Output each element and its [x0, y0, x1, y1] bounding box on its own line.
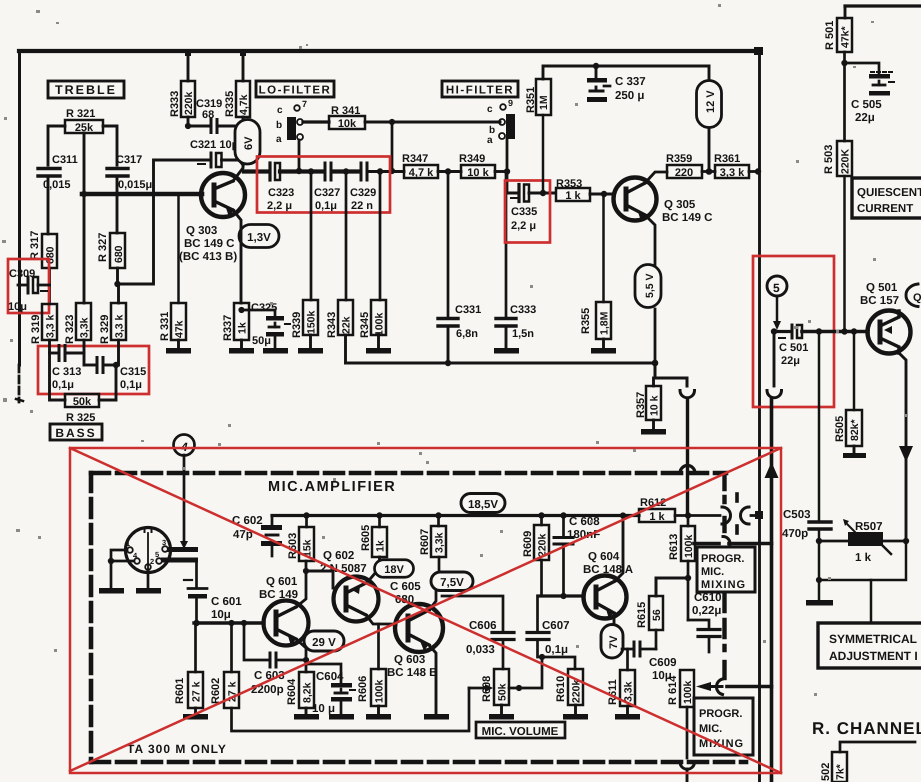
svg-text:R611: R611: [607, 679, 619, 705]
svg-text:220k: 220k: [183, 91, 195, 115]
wire switch b to R341: [303, 120, 329, 123]
red box node5 C501: [753, 256, 834, 407]
svg-text:MIC.AMPLIFIER: MIC.AMPLIFIER: [268, 479, 396, 495]
resistor R613: [668, 534, 680, 560]
red diagonal B: [70, 448, 781, 771]
red box C323 C327 C329: [257, 157, 390, 213]
resistor R614: [667, 675, 679, 705]
wire R331 top to base line: [177, 196, 180, 303]
wire Q604 collector to rail: [615, 516, 623, 582]
resistor R333: [169, 91, 181, 117]
ground R355: [602, 339, 605, 348]
svg-text:3,3k: 3,3k: [79, 317, 91, 338]
resistor R339: [291, 312, 303, 338]
svg-text:0,1μ: 0,1μ: [315, 200, 337, 212]
capacitor C327: [324, 163, 327, 180]
wire Q305 emitter to 5,5V: [645, 215, 655, 266]
transistor Q305: [614, 178, 657, 221]
svg-text:R 501: R 501: [824, 21, 836, 50]
svg-text:MIC.: MIC.: [699, 723, 722, 735]
ground DIN center: [136, 588, 161, 594]
wire Q603 emitter to ground: [429, 645, 436, 714]
svg-text:R607: R607: [419, 529, 431, 555]
svg-text:0,1μ: 0,1μ: [52, 379, 74, 391]
svg-text:22μ: 22μ: [781, 355, 800, 367]
wiper arrow into R614: [711, 685, 722, 688]
voltage oval 7,5V: [431, 572, 473, 591]
connector hook at R614: [716, 679, 722, 695]
svg-text:2: 2: [150, 557, 154, 566]
svg-text:1: 1: [126, 539, 130, 548]
svg-text:C331: C331: [455, 304, 481, 316]
wire R347 to R349: [438, 170, 461, 173]
svg-text:2,2 μ: 2,2 μ: [267, 200, 292, 212]
svg-text:0,1μ: 0,1μ: [545, 644, 568, 656]
wire Q604 emitter: [613, 613, 616, 648]
svg-text:5: 5: [155, 550, 159, 559]
wire R329 top: [117, 284, 120, 303]
wire C603 feedback: [244, 623, 268, 660]
capacitor C313: [48, 340, 51, 353]
svg-text:C 337: C 337: [615, 76, 646, 88]
svg-text:C607: C607: [542, 620, 570, 632]
wire Q601 collector to R603: [296, 561, 306, 607]
svg-text:R355: R355: [580, 308, 592, 334]
resistor R615: [636, 602, 648, 628]
svg-text:c: c: [277, 105, 283, 116]
svg-text:C 605: C 605: [390, 581, 421, 593]
svg-text:R 323: R 323: [64, 315, 76, 344]
svg-text:100k: 100k: [374, 312, 386, 336]
resistor R329: [99, 315, 111, 344]
svg-text:Q 602: Q 602: [323, 550, 354, 562]
wire stub R613 node to hook: [694, 542, 719, 546]
wire R327 bottom junction: [116, 268, 119, 284]
svg-text:R605: R605: [360, 525, 372, 551]
svg-text:3,3k: 3,3k: [434, 532, 446, 553]
capacitor C335: [507, 192, 517, 195]
svg-text:R606: R606: [357, 676, 369, 702]
wire R349 right to switch node: [495, 170, 507, 173]
svg-text:50μ: 50μ: [252, 335, 271, 347]
wire R355 top to base node: [602, 194, 605, 302]
resistor R502: [840, 742, 915, 752]
wire C501 to Q501 base: [802, 330, 868, 334]
svg-text:R 614: R 614: [667, 675, 679, 705]
svg-text:1k: 1k: [237, 322, 249, 334]
svg-text:50k: 50k: [497, 683, 509, 701]
svg-text:47k: 47k: [174, 320, 186, 338]
wire R612 to hooks: [675, 514, 720, 517]
capacitor C329: [360, 163, 363, 180]
svg-text:a: a: [487, 135, 493, 146]
svg-text:C609: C609: [649, 657, 677, 669]
svg-text:C503: C503: [783, 509, 811, 521]
svg-text:C311: C311: [52, 154, 78, 166]
svg-text:22 n: 22 n: [351, 200, 373, 212]
wire R341 to HI switch: [365, 121, 500, 124]
resistor R323: [64, 315, 76, 344]
svg-text:R615: R615: [636, 602, 648, 628]
svg-text:5,5 V: 5,5 V: [644, 273, 656, 298]
resistor R503: [823, 145, 835, 174]
svg-text:MIXING: MIXING: [701, 579, 746, 591]
svg-text:7V: 7V: [608, 635, 620, 649]
svg-text:82k*: 82k*: [849, 418, 861, 441]
big red box MIC AMPLIFIER: [70, 448, 781, 773]
svg-text:C309: C309: [9, 268, 35, 280]
wire node4 down to DIN: [183, 455, 186, 541]
supply rail 18,5V: [272, 514, 639, 517]
wire 7,5V up to R607: [438, 557, 441, 572]
resistor R605: [360, 525, 372, 551]
wire R333 top to frame: [187, 53, 190, 81]
connector hook on emitter output: [680, 391, 695, 398]
wire switch a down to chain: [298, 140, 301, 171]
wire R317 bottom to C309 node: [48, 268, 51, 304]
svg-text:1,8M: 1,8M: [599, 311, 611, 335]
svg-text:0,015: 0,015: [43, 179, 71, 191]
svg-text:R505: R505: [834, 416, 846, 442]
wire R335 top to frame: [242, 53, 245, 81]
svg-text:MIC. VOLUME: MIC. VOLUME: [482, 726, 559, 738]
voltage oval 6V: [235, 120, 260, 165]
wire Q305 collector to R359: [645, 172, 667, 183]
svg-text:R 331: R 331: [159, 312, 171, 341]
wire C327 to C329: [333, 169, 359, 173]
resistor R319: [30, 315, 42, 344]
wire mixing branch to hook R613: [729, 542, 772, 546]
svg-text:a: a: [276, 134, 282, 145]
svg-text:C327: C327: [314, 187, 340, 199]
svg-text:R 325: R 325: [66, 412, 95, 424]
svg-text:CURRENT: CURRENT: [857, 203, 913, 215]
svg-text:R 329: R 329: [99, 315, 111, 344]
red box C313 C315: [38, 346, 149, 394]
callout oval partial: [906, 284, 918, 307]
wire Q602 collector to Q603 base: [366, 615, 394, 624]
svg-text:MIC.: MIC.: [701, 566, 724, 578]
arrow down on emitter line: [899, 446, 913, 462]
wire Q501 emitter down: [899, 353, 906, 537]
resistor R608: [481, 676, 493, 702]
arrow up on mixing line: [765, 462, 779, 478]
wire DIN pin3 pin5 output bars: [167, 547, 198, 552]
wire R321 right to C317: [103, 126, 117, 165]
feedback wire R327 to C321: [116, 160, 154, 284]
svg-text:9: 9: [508, 98, 513, 108]
capacitor C503: [818, 332, 821, 522]
ground R357: [652, 420, 655, 429]
svg-text:C333: C333: [510, 304, 536, 316]
svg-text:R. CHANNEL: R. CHANNEL: [812, 719, 921, 738]
svg-text:C315: C315: [120, 366, 146, 378]
svg-text:BASS: BASS: [55, 426, 96, 440]
resistor R337: [222, 315, 234, 341]
voltage oval 7V: [601, 625, 623, 659]
label box PROGR MIC MIXING 1: [697, 547, 755, 592]
wire lower link: [819, 541, 906, 580]
svg-text:220K: 220K: [840, 148, 852, 174]
svg-text:220: 220: [675, 167, 693, 179]
capacitor C601: [184, 579, 192, 581]
svg-text:29 V: 29 V: [312, 637, 336, 649]
svg-text:22k: 22k: [341, 316, 353, 334]
red box C309: [8, 259, 49, 313]
DIN socket connector: [126, 528, 171, 573]
wire 6V node down to Q303 collector: [233, 126, 243, 181]
svg-text:R 503: R 503: [823, 145, 835, 174]
wire R359 to R361: [702, 170, 715, 173]
resistor R351: [525, 87, 537, 113]
svg-text:100k: 100k: [683, 534, 695, 558]
ground C333: [494, 348, 519, 354]
svg-text:Q 604: Q 604: [588, 551, 620, 563]
resistor R606: [357, 676, 369, 702]
resistor R343: [326, 312, 338, 338]
svg-text:1,3V: 1,3V: [247, 232, 271, 244]
wire hook to mixing line: [727, 685, 772, 689]
svg-text:22μ: 22μ: [855, 112, 875, 124]
wire R353 to Q305 base: [590, 193, 614, 196]
junction frame/divider: [754, 47, 763, 55]
svg-text:C610: C610: [694, 592, 722, 604]
frame left border: [18, 51, 21, 365]
resistor R610: [555, 676, 567, 702]
svg-text:R339: R339: [291, 312, 303, 338]
svg-text:1 k: 1 k: [565, 190, 581, 202]
voltage oval 5,5V: [635, 265, 661, 308]
svg-text:R345: R345: [359, 312, 371, 338]
capacitor C505: [845, 63, 880, 74]
wire R602 bottom long: [232, 688, 470, 731]
wire R335 bottom to 6V node: [242, 117, 245, 126]
wire Q601 emitter down: [296, 639, 306, 672]
wire R501 bottom: [843, 52, 846, 141]
svg-text:ADJUSTMENT I: ADJUSTMENT I: [829, 649, 918, 663]
svg-text:10μ: 10μ: [211, 609, 231, 621]
connector hooks pair: [722, 507, 731, 524]
resistor R327: [97, 233, 109, 262]
voltage oval 12V: [708, 66, 711, 82]
resistor R501: [824, 21, 836, 50]
wire R503 down to Q501 node: [843, 176, 846, 331]
svg-text:C329: C329: [350, 187, 376, 199]
wire DIN pin2 to ground: [147, 570, 150, 588]
svg-text:C 313: C 313: [52, 366, 81, 378]
Q604 base wire: [538, 594, 584, 597]
wire R351 bottom to node: [542, 115, 545, 193]
svg-text:BC 148 B: BC 148 B: [387, 667, 438, 679]
svg-text:2,2 μ: 2,2 μ: [511, 220, 536, 232]
transistor Q501: [868, 311, 911, 354]
capacitor C609: [622, 648, 632, 651]
svg-text:680: 680: [45, 246, 57, 264]
svg-text:10 k: 10 k: [649, 395, 661, 416]
svg-text:0,033: 0,033: [466, 644, 495, 656]
wire hop over dashed border: [680, 466, 695, 473]
node 5 circle: [767, 276, 787, 296]
svg-text:100k: 100k: [682, 680, 694, 704]
svg-text:R613: R613: [668, 534, 680, 560]
node 4 circle: [174, 435, 195, 456]
resistor R611: [607, 679, 619, 705]
ground DIN left: [99, 588, 124, 594]
red box C335: [505, 181, 550, 243]
resistor R331: [159, 312, 171, 341]
svg-text:BC 157: BC 157: [860, 295, 899, 307]
svg-text:0,22μ: 0,22μ: [692, 605, 721, 617]
transistor Q601: [264, 601, 309, 646]
resistor R335: [224, 91, 236, 117]
svg-text:SYMMETRICAL: SYMMETRICAL: [829, 632, 917, 646]
resistor R602: [210, 678, 222, 704]
resistor R355: [580, 308, 592, 334]
resistor R345: [359, 312, 371, 338]
wire C501 node down to hook: [773, 332, 776, 387]
wire node5 down: [776, 296, 779, 321]
wire switch HI down to C335: [506, 139, 509, 193]
svg-text:10μ: 10μ: [8, 301, 27, 313]
Q303 emitter wire to R337: [233, 210, 241, 303]
svg-text:c: c: [487, 104, 493, 115]
potentiometer R325: [50, 353, 66, 400]
wire R351 top rail: [543, 66, 709, 79]
svg-text:TREBLE: TREBLE: [55, 83, 117, 97]
svg-text:R609: R609: [522, 531, 534, 557]
capacitor C337: [593, 63, 599, 69]
svg-text:18,5V: 18,5V: [468, 499, 498, 511]
wire emitter node to R357 and hook: [655, 363, 687, 386]
svg-text:R610: R610: [555, 676, 567, 702]
svg-text:C321 10μ: C321 10μ: [190, 139, 238, 151]
svg-text:6V: 6V: [243, 136, 255, 150]
svg-text:R 317: R 317: [29, 231, 41, 260]
frame top border: [19, 49, 758, 53]
svg-text:R604: R604: [286, 678, 298, 705]
svg-text:BC 149: BC 149: [259, 589, 298, 601]
long wire R343 to emitter node: [346, 362, 656, 365]
label box HI-FILTER: [442, 81, 518, 97]
svg-text:BC 149 C: BC 149 C: [184, 238, 235, 250]
svg-text:5: 5: [773, 281, 780, 295]
svg-text:C317: C317: [116, 154, 142, 166]
svg-text:4,7 k: 4,7 k: [409, 167, 434, 179]
ground R331: [177, 340, 180, 348]
svg-text:Q 305: Q 305: [664, 199, 696, 211]
svg-text:C325: C325: [251, 302, 277, 314]
wire drop to chain at 392: [391, 122, 394, 171]
label box QUIESCENT CURRENT: [852, 178, 921, 218]
label box PROGR MIC MIXING 2: [694, 698, 753, 755]
svg-text:PROGR.: PROGR.: [701, 553, 744, 565]
resistor R505: [853, 332, 856, 411]
svg-text:1M: 1M: [538, 95, 550, 110]
svg-text:R349: R349: [459, 153, 485, 165]
svg-text:R333: R333: [169, 91, 181, 117]
connector hook at mixing branch: [723, 537, 730, 551]
svg-text:R343: R343: [326, 312, 338, 338]
wire C329 to R347: [369, 170, 404, 173]
capacitor C501: [774, 330, 791, 333]
voltage oval 29V: [304, 631, 344, 651]
svg-text:C323: C323: [268, 187, 294, 199]
svg-text:R507: R507: [855, 521, 883, 533]
svg-text:1 k: 1 k: [649, 511, 665, 523]
svg-text:12 V: 12 V: [705, 90, 717, 113]
svg-text:TA 300 M ONLY: TA 300 M ONLY: [127, 742, 227, 756]
svg-text:C 501: C 501: [779, 342, 808, 354]
svg-text:R335: R335: [224, 91, 236, 117]
resistor R357: [635, 392, 647, 418]
wire Q601 collector to Q602 base: [306, 571, 333, 588]
wire R361 to divider: [749, 170, 759, 173]
svg-text:R 321: R 321: [66, 108, 95, 120]
svg-text:502: 502: [820, 763, 832, 781]
svg-text:3: 3: [162, 538, 166, 547]
transistor Q303: [201, 173, 245, 217]
svg-text:HI-FILTER: HI-FILTER: [446, 85, 514, 97]
transistor Q603: [395, 604, 443, 652]
resistor R317: [29, 231, 41, 260]
svg-text:b: b: [276, 120, 282, 131]
svg-text:QUIESCENT: QUIESCENT: [857, 187, 921, 199]
capacitor C603: [269, 653, 272, 667]
capacitor C323: [268, 163, 271, 180]
svg-text:1k: 1k: [375, 540, 387, 552]
connector hook below C501: [767, 391, 782, 398]
svg-text:7: 7: [302, 99, 307, 109]
output chain wire Q303 to C323: [244, 169, 268, 173]
svg-text:3,3 k: 3,3 k: [114, 314, 126, 338]
svg-text:10 k: 10 k: [467, 167, 489, 179]
svg-text:1 k: 1 k: [855, 552, 872, 564]
svg-text:Q 501: Q 501: [866, 282, 898, 294]
svg-text:LO-FILTER: LO-FILTER: [259, 85, 332, 97]
svg-text:50k: 50k: [73, 396, 92, 408]
Q303 base wire: [82, 192, 202, 197]
svg-text:0,1μ: 0,1μ: [120, 379, 142, 391]
svg-text:220k: 220k: [571, 679, 583, 703]
ground R337: [240, 340, 243, 348]
wire to symmetrical box: [870, 580, 873, 623]
svg-text:250 μ: 250 μ: [615, 90, 644, 102]
Q601 base wire: [194, 621, 264, 624]
svg-text:150k: 150k: [306, 310, 318, 334]
wiper R608: [469, 687, 487, 690]
wire C331 drop: [447, 172, 450, 318]
label box LO-FILTER: [256, 81, 334, 97]
resistor R604: [286, 678, 298, 705]
wire R333 bottom: [187, 117, 190, 126]
svg-text:C 608: C 608: [569, 516, 600, 528]
svg-text:18V: 18V: [384, 564, 404, 576]
svg-text:10 μ: 10 μ: [312, 703, 335, 715]
wire hook down to mic box: [686, 400, 689, 516]
svg-text:3,3 k: 3,3 k: [720, 167, 745, 179]
wire C323 to C327: [280, 169, 323, 173]
transistor Q602: [334, 577, 379, 622]
svg-text:27 k: 27 k: [191, 681, 203, 702]
svg-text:0,015μ: 0,015μ: [118, 179, 152, 191]
svg-text:C606: C606: [469, 620, 497, 632]
resistor R609: [522, 531, 534, 557]
svg-text:Q 303: Q 303: [186, 225, 217, 237]
svg-text:3,3 k: 3,3 k: [45, 314, 57, 338]
wire R614 bottom to edge connector: [686, 707, 689, 758]
svg-text:180nF: 180nF: [567, 529, 600, 541]
wire DIN pin1 pin4 to ground: [111, 550, 127, 588]
